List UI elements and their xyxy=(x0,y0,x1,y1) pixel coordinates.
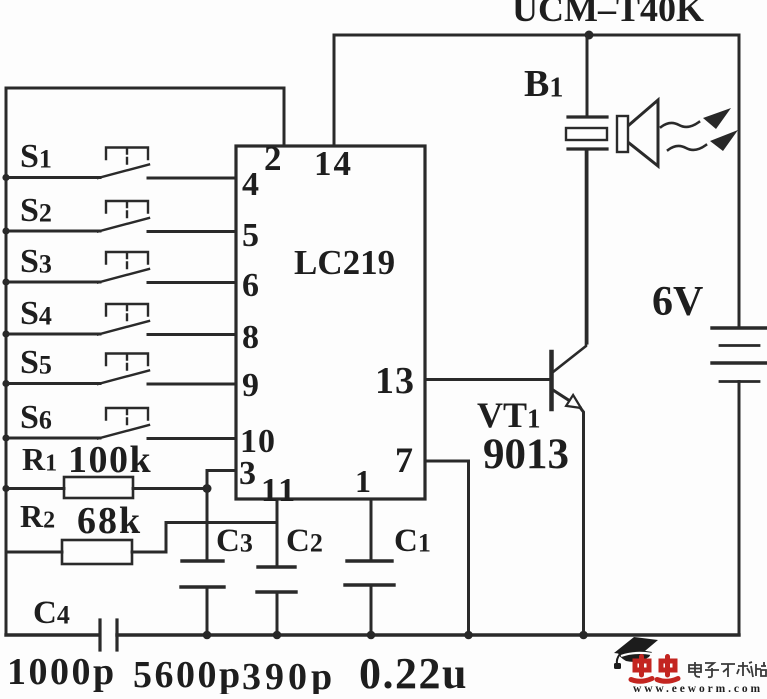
capacitor C1 xyxy=(345,561,394,635)
capacitor C2 xyxy=(257,567,296,635)
svg-text:UCM–T40K: UCM–T40K xyxy=(512,0,704,29)
wire top bus xyxy=(334,34,739,37)
wire speaker bottom stem xyxy=(586,149,589,343)
svg-text:100k: 100k xyxy=(68,439,152,481)
sound wave arrow 1 xyxy=(661,122,699,127)
svg-text:6V: 6V xyxy=(652,279,703,325)
capacitor C3 xyxy=(181,561,224,635)
svg-text:C3: C3 xyxy=(216,523,253,559)
wire top-left bus xyxy=(6,87,284,90)
svg-text:S2: S2 xyxy=(20,192,52,229)
svg-text:13: 13 xyxy=(375,360,415,402)
switch S2 xyxy=(2,201,236,235)
svg-text:2: 2 xyxy=(264,139,282,178)
wire speaker top stem xyxy=(586,35,589,117)
battery GB plate short xyxy=(720,344,759,347)
transducer B1 top plate xyxy=(568,115,607,118)
speaker driver box xyxy=(617,116,628,152)
transducer B1 crystal box xyxy=(566,128,607,140)
capacitor C4 right plate xyxy=(115,620,118,650)
svg-text:S6: S6 xyxy=(20,399,52,436)
switch S6 xyxy=(2,408,236,442)
svg-text:www.eeworm.com: www.eeworm.com xyxy=(633,683,763,694)
battery GB plate long xyxy=(712,361,766,364)
svg-text:68k: 68k xyxy=(77,500,142,542)
transistor VT1 collector xyxy=(553,149,586,372)
transistor VT1 base bar xyxy=(549,352,554,409)
svg-text:S3: S3 xyxy=(20,243,52,280)
svg-text:LC219: LC219 xyxy=(294,243,395,282)
node R1/pin3/C3 junction xyxy=(203,484,212,493)
watermark red logo bug 2 xyxy=(657,657,678,682)
svg-text:3: 3 xyxy=(239,455,256,492)
wire pin13 to base xyxy=(425,378,551,381)
watermark graduation cap xyxy=(614,637,658,669)
wire emitter drop xyxy=(580,408,584,636)
svg-text:1000p: 1000p xyxy=(7,651,117,693)
switch S4 xyxy=(2,304,236,338)
wire bottom bus main segment xyxy=(117,633,739,636)
wire pin2 drop xyxy=(283,88,286,146)
battery GB plate long top xyxy=(712,326,766,329)
wire R2 to pin11 net xyxy=(166,523,277,553)
svg-text:1: 1 xyxy=(355,463,371,499)
node C3/bus xyxy=(203,631,212,640)
svg-text:C2: C2 xyxy=(286,523,323,559)
watermark red logo bug 1 xyxy=(631,657,652,682)
svg-text:11: 11 xyxy=(261,472,297,509)
wire pin14 drop xyxy=(333,35,336,146)
transistor VT1 emitter xyxy=(553,390,580,408)
sound wave arrow 2 xyxy=(668,145,706,150)
svg-text:4: 4 xyxy=(242,166,259,203)
node C2/bus xyxy=(273,631,282,640)
svg-text:S5: S5 xyxy=(20,344,52,381)
svg-text:6: 6 xyxy=(242,267,259,304)
svg-text:14: 14 xyxy=(314,144,353,183)
battery GB plate short bottom xyxy=(720,380,759,383)
wire pin1 drop xyxy=(370,499,373,561)
switch S3 xyxy=(2,252,236,286)
switch S1 xyxy=(2,148,236,182)
node emitter/bus xyxy=(579,631,588,640)
svg-text:7: 7 xyxy=(395,440,413,480)
wire pin3 riser xyxy=(207,471,236,489)
transducer B1 bottom plate xyxy=(568,147,607,150)
svg-text:9013: 9013 xyxy=(483,431,569,478)
node speaker/top-bus junction xyxy=(585,31,594,40)
watermark text dianzi xyxy=(689,662,766,677)
wire pin11 drop xyxy=(276,499,279,567)
svg-text:S1: S1 xyxy=(20,138,52,175)
svg-text:0.22u: 0.22u xyxy=(359,649,468,694)
svg-text:C4: C4 xyxy=(33,595,70,631)
resistor R1 xyxy=(2,477,207,498)
svg-text:5600p: 5600p xyxy=(133,654,243,694)
wire R1 junction to C3 xyxy=(206,489,209,562)
capacitor C4 left plate xyxy=(98,620,101,650)
svg-text:9: 9 xyxy=(242,367,259,404)
wire bottom bus left segment xyxy=(6,633,99,636)
svg-text:5: 5 xyxy=(242,217,259,254)
node pin7/bus xyxy=(464,631,473,640)
speaker horn xyxy=(629,100,658,166)
wire right rail to battery xyxy=(738,35,741,328)
wire pin7 to bus xyxy=(425,461,469,635)
svg-text:390p: 390p xyxy=(242,656,336,694)
IC U1 LC219 body xyxy=(236,146,425,499)
resistor R2 xyxy=(6,540,166,564)
svg-text:S4: S4 xyxy=(20,295,52,332)
svg-text:C1: C1 xyxy=(394,523,431,559)
switch S5 xyxy=(2,354,236,388)
transistor VT1 emitter arrow xyxy=(566,395,581,408)
wire left rail xyxy=(5,88,8,635)
wire battery bottom stem xyxy=(738,382,741,636)
svg-text:8: 8 xyxy=(242,319,259,356)
node C1/bus xyxy=(367,631,376,640)
